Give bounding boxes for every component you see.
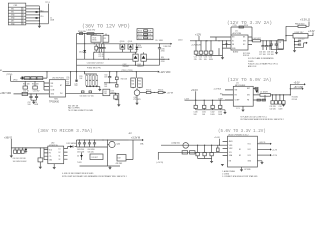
wire aux out [295,42,308,48]
junction dots rail 12V [195,40,227,41]
svg-text:431 REF: 431 REF [116,163,123,165]
low rail wire left [77,58,133,60]
resistor R121 [190,151,196,154]
capacitor C70 bulk [75,72,79,88]
svg-text:470U: 470U [161,61,166,63]
svg-text:10U: 10U [202,114,206,116]
fuse F100 [80,33,83,35]
capacitor C143 box [278,40,284,49]
svg-text:BT: BT [60,85,62,87]
top rail wire [77,33,104,35]
wire pin7 [26,23,49,25]
wire control row1 [11,72,50,87]
labels C115 R116 [233,25,249,27]
svg-text:BS: BS [243,37,245,39]
svg-text:D56: D56 [111,90,114,92]
DA DB inner labels [132,80,142,85]
wire pin2 [26,8,40,10]
svg-text:SW: SW [243,41,246,43]
capacitor C163 [83,140,86,147]
svg-text:R2 10K: R2 10K [292,99,298,101]
divider bottom rail [87,86,100,88]
svg-text:R18 10K: R18 10K [243,55,250,57]
capacitor C162 [78,140,81,147]
label +5V M arrow [163,91,173,94]
mosfet source wires upper [122,44,130,52]
labels C60 [104,74,108,88]
pgnd rail wire [77,64,160,66]
capacitor C133 [219,100,222,110]
svg-text:C32 22U: C32 22U [270,109,277,111]
svg-text:F100 3A: F100 3A [78,30,86,33]
resistor R51 [31,77,36,80]
svg-text:SDA: SDA [229,154,233,157]
label Q50 [134,97,141,101]
junction dots flyback in [15,147,45,148]
wire VCC riser [70,72,72,86]
labels C56 C57 below [80,96,95,98]
svg-text:(12V TO 5.0V 2A): (12V TO 5.0V 2A) [227,77,271,83]
svg-text:R64: R64 [132,80,135,82]
svg-text:+12V: +12V [195,32,201,36]
svg-text:COMP: COMP [218,99,223,101]
junction dots y52 [94,52,100,53]
svg-text:10K: 10K [104,86,108,88]
svg-text:1U: 1U [279,42,282,44]
wire +5.0V ldo drop [219,139,220,146]
svg-text:DET: DET [11,21,14,23]
capacitor C141b [270,41,273,50]
resistor R72 column [92,74,94,87]
svg-text:D2: D2 [59,152,61,154]
svg-text:(+5V D): (+5V D) [157,162,164,164]
buck IC U104 [222,86,260,106]
divider box pair DB [138,78,143,88]
ground rail collect [196,110,227,115]
U50 inner labels [51,83,64,96]
collect rail y52 [94,51,137,53]
svg-text:R76 1K: R76 1K [158,90,163,92]
mosfet Q103 [141,54,146,61]
svg-text:AND L102.: AND L102. [248,65,257,68]
svg-text:100N: 100N [50,20,55,22]
svg-text:4: GND OF SECONDARY SIDE IS SG: 4: GND OF SECONDARY SIDE IS SGND [62,172,94,175]
capacitor C132 [211,100,214,110]
labels C160 C161 D107 [13,158,28,163]
junction dots 36V wire [30,93,37,94]
capacitor C147 [274,95,277,104]
bus wire vertical [38,6,40,26]
svg-text:D76: D76 [138,45,141,47]
svg-text:+12V VFD: +12V VFD [159,71,170,74]
svg-text:+3.3V: +3.3V [308,30,315,33]
svg-text:C60 C61 C62 D30: C60 C61 C62 D30 [13,158,26,160]
svg-text:MP1584EN: MP1584EN [235,85,246,87]
zener ZD100 [80,153,83,161]
wire ldo input [161,144,228,146]
svg-text:R17 31K6: R17 31K6 [243,53,250,55]
capacitor C162b [21,148,24,154]
svg-text:C33: C33 [279,106,282,108]
svg-text:D1: D1 [59,148,61,150]
junction dots on bus [39,8,40,24]
wire output row [71,92,103,94]
ground ldo caps [198,159,214,164]
switcher U30 [44,146,68,164]
capacitor C1 label [50,18,55,22]
svg-text:D31 SB240: D31 SB240 [67,143,77,145]
ferrite bead FB102 [36,17,38,19]
svg-text:10U: 10U [28,104,32,106]
transformer T100 box [91,34,101,43]
junction dots low rail [93,59,109,60]
ground U103 [293,50,296,52]
svg-text:D106 24V: D106 24V [164,46,172,48]
wire after L51 [110,92,119,94]
label U102 [233,30,242,35]
svg-text:R61: R61 [104,84,107,86]
labels C52 C53 [28,102,39,106]
svg-text:VIN: VIN [235,90,239,92]
mosfet Q101 [128,44,133,49]
svg-text:U50 NCP1031: U50 NCP1031 [52,77,64,79]
junction dots top rail [84,33,103,34]
capacitor C135 [199,41,203,56]
svg-text:(+5V): (+5V) [185,98,190,100]
labels C139-C141 [259,52,274,56]
svg-text:IN: IN [232,41,234,43]
svg-text:L1 10UH: L1 10UH [260,91,268,93]
capacitor C75 [98,44,101,52]
pmic U1002 [223,136,258,167]
svg-text:R75 1K: R75 1K [146,90,151,92]
svg-text:C64 470U: C64 470U [88,149,96,151]
svg-text:U31 817: U31 817 [92,157,98,159]
note text 3.3V [248,57,278,68]
svg-text:U1002 LP3906SD 3.3/1.2: U1002 LP3906SD 3.3/1.2 [228,134,248,136]
mosfet Q102 [133,54,138,61]
svg-text:C65: C65 [138,84,141,86]
ferrite bead FB100 [286,22,309,28]
ldo U103 [286,33,313,39]
svg-text:C63 470U: C63 470U [77,149,85,151]
bootstrap loop C115 R116 [231,26,252,41]
labels C144 C145 [298,39,305,41]
capacitor C105 vertical [158,44,161,65]
ground L51 [117,93,120,106]
svg-text:COMP: COMP [235,100,240,102]
capacitor C102 drop [93,52,95,59]
labels ZD100 [77,156,82,164]
svg-text:VIPER12A: VIPER12A [49,144,58,147]
ferrite bead FB101 [36,11,38,13]
test point TP1 wire [47,4,49,24]
svg-text:L100 47U: L100 47U [87,30,96,32]
capacitor C164 [88,140,91,147]
wire pin5 [26,17,40,19]
svg-text:R110: R110 [138,31,142,33]
feedback tap wire [126,140,133,160]
wire DB to Q50 [136,88,138,90]
svg-text:FB: FB [247,100,249,102]
svg-text:1 2 3: 1 2 3 [236,108,240,110]
svg-text:2SK4017: 2SK4017 [123,66,130,68]
svg-text:(TP50): (TP50) [7,74,13,76]
mosfet drain source wires lower [136,52,144,65]
labels C146-C149 [270,106,284,110]
low rail wire right [146,58,159,60]
svg-text:R50 10K: R50 10K [23,84,30,86]
labels Q102 Q103 [123,64,144,68]
L51 inner labels [104,91,107,95]
svg-text:RC: RC [104,38,107,40]
bootstrap cap C119 [255,87,258,93]
wire secondary mid [107,140,109,166]
ground caps 3.3V [271,50,283,55]
svg-text:S2: S2 [59,159,61,161]
svg-text:B1: B1 [239,149,241,151]
rail flyback in [11,147,48,149]
capacitor C152 [210,145,213,158]
junction dot riser [285,35,295,45]
resistor R120 [182,151,188,154]
capacitor C141 [268,41,271,50]
svg-text:R70: R70 [80,76,83,78]
svg-text:D5: D5 [156,40,158,42]
wire pin6 [26,20,40,22]
junction dots divider [86,86,97,87]
svg-text:470U: 470U [161,50,166,52]
svg-text:VIN1: VIN1 [229,145,233,147]
U1002 output pin3 [257,154,277,157]
svg-text:C31 22U: C31 22U [270,106,277,108]
rail 12V wire [190,40,231,42]
svg-text:N: 3.3V PLANE IS SEPARATED: N: 3.3V PLANE IS SEPARATED [248,57,274,60]
labels right C55 [66,77,70,86]
svg-text:R51 10K: R51 10K [32,84,39,86]
resistor R50 [25,77,30,80]
svg-text:100N: 100N [279,109,284,111]
svg-text:CTL: CTL [49,156,52,158]
svg-text:SCL: SCL [229,152,232,154]
controller U50 [44,80,71,97]
wire +36V VFD [14,93,50,95]
svg-text:C105: C105 [161,48,165,50]
diode D104 vertical [135,44,138,52]
svg-text:C57 10U: C57 10U [88,96,95,98]
diode D110 [68,145,77,148]
resistor R71 column [89,74,91,87]
svg-text:C60: C60 [104,74,107,76]
resistor R76 [151,90,163,94]
transformer labels [93,37,97,41]
svg-text:C17 10U: C17 10U [259,54,266,56]
svg-text:C65 100N: C65 100N [77,151,85,153]
diode D106 [255,90,258,93]
svg-text:(TP51): (TP51) [121,70,127,72]
svg-text:+2.5V: +2.5V [272,155,278,157]
U104 pin labels [214,88,224,100]
resistor R70 column [86,74,88,87]
junction dots ldo input [197,145,212,146]
capacitor C53 [35,94,38,100]
resistor R52 [37,77,43,80]
svg-text:S1: S1 [59,155,61,157]
ground U104 pad [241,106,244,112]
svg-text:VDD: VDD [49,149,53,151]
feedback resistors [257,95,266,101]
feedback labels [292,96,298,100]
inductor L100 [87,33,94,35]
svg-text:PGND SW 5 PIN: PGND SW 5 PIN [87,68,101,70]
svg-text:GND: GND [49,159,53,161]
svg-text:R116: R116 [244,25,248,27]
svg-text:L51: L51 [104,91,107,93]
labels C105 C106 [161,48,166,63]
svg-text:(36V TO MICOM 3.75A): (36V TO MICOM 3.75A) [38,128,93,134]
labels R117 R118 [243,53,250,57]
svg-text:R1 40K2: R1 40K2 [292,96,298,98]
junction dots control rail [46,71,136,72]
capacitor C161 [17,148,20,154]
svg-text:+1.2V: +1.2V [272,149,278,151]
wire drop left [84,34,86,44]
label R70 [80,76,84,80]
fb box R63 [116,83,118,87]
wire pin4 [26,14,40,16]
capacitor C131 [203,100,206,110]
svg-text:EN: EN [235,95,238,97]
svg-text:JP50: JP50 [13,80,17,82]
svg-text:TH: 12 VIAS 0.3MM PITCH 1MM: TH: 12 VIAS 0.3MM PITCH 1MM [68,109,93,112]
ground U1002 pad [240,167,243,172]
gate resistor table [137,29,153,40]
fb branch hline [104,82,117,83]
capacitor C130 [194,100,197,110]
mosfet Q100 [120,44,125,49]
svg-text:C25 10U: C25 10U [298,39,305,41]
svg-text:AVIN: AVIN [229,140,233,143]
mid rail wire [77,43,160,45]
rail +12V VFD [3,71,160,73]
output stub D106 [160,43,173,45]
inrush box L50 [22,92,27,95]
left rail wire [76,34,78,72]
junction dots secondary [79,139,108,140]
junction dots 5V out [272,88,291,95]
capacitor C134 [194,41,198,56]
svg-text:FB: FB [51,86,53,88]
wire +36V drop [10,139,12,148]
svg-text:100N: 100N [210,114,215,116]
svg-text:1: 1 [23,9,24,11]
ground U30 [53,164,56,170]
output stub SW [160,59,170,60]
svg-text:U103 1117: U103 1117 [295,32,304,34]
capacitor C52 [29,94,32,100]
label U30 [49,143,58,147]
svg-text:Q101: Q101 [128,41,132,43]
ground divider [98,87,101,92]
ground secondary [108,166,111,170]
svg-text:L102 4R7: L102 4R7 [253,38,261,40]
capacitor C137 [209,41,213,56]
capacitor C103 drop [103,52,105,59]
svg-text:R55: R55 [66,82,69,84]
svg-text:3R3: 3R3 [104,93,107,95]
svg-text:R62 10K: R62 10K [121,79,128,81]
junction dots rail 5V [195,100,221,101]
svg-text:2SK4017: 2SK4017 [137,66,144,68]
svg-text:NOTE: KEEP SECONDARY GND SEPAR: NOTE: KEEP SECONDARY GND SEPARATED FROM … [62,175,127,178]
svg-text:4: 4 [23,18,24,20]
U1002 ground pin4 [257,161,263,165]
svg-text:SS34: SS34 [138,47,142,49]
svg-text:Q30: Q30 [117,144,121,146]
labels R50 R51 [23,84,39,86]
connector pin row labels [11,9,24,26]
rail 5V wire [185,99,234,101]
svg-text:C51 4N7: C51 4N7 [33,91,40,93]
svg-text:VO3: VO3 [248,155,251,157]
shunt reg U108 [117,155,126,162]
svg-text:+5V M: +5V M [167,93,174,95]
capacitor C160 [14,148,17,154]
capacitor C153 [217,145,220,151]
svg-text:+5.0V: +5.0V [294,83,301,85]
ground bus [38,26,41,28]
svg-text:100N: 100N [34,104,39,106]
transistor Q50 [134,90,140,96]
capacitor C146 [271,95,274,104]
capacitor C150 [196,145,199,158]
svg-text:100N: 100N [218,114,223,116]
svg-text:10U 100N 1N 600V: 10U 100N 1N 600V [13,161,28,163]
labels C134-C137 [194,57,214,61]
svg-text:C10: C10 [40,16,43,18]
svg-text:C19 10U: C19 10U [267,54,274,56]
wire +5.0V out [290,83,305,95]
svg-text:+12V BUS: +12V BUS [214,88,222,90]
svg-text:SW: SW [161,57,164,59]
svg-text:ZD: ZD [77,156,80,158]
svg-text:B2: B2 [239,155,241,157]
note text ldo [222,170,258,178]
junction dots mid rail [84,43,160,44]
svg-text:COM: COM [51,90,55,92]
U104 inner labels [235,88,251,102]
svg-text:C64: C64 [132,84,135,86]
svg-text:EN: EN [229,161,232,163]
rail secondary gnd [77,146,108,148]
labels C75 C76 [98,54,104,58]
svg-text:GND: GND [232,48,236,50]
svg-text:EP GND: EP GND [245,169,252,171]
svg-text:+36V VFD: +36V VFD [0,92,11,95]
svg-text:22U: 22U [194,59,198,61]
U102 inner labels [232,37,246,50]
inductor L51 box [103,89,110,96]
test point TP50 [7,74,13,81]
svg-text:R111: R111 [138,34,142,36]
svg-text:E1: E1 [0,70,2,72]
svg-text:22U: 22U [199,59,203,61]
resistor R75 [140,90,152,94]
svg-text:+3.3V_D: +3.3V_D [300,18,310,22]
U1002 inner labels [229,140,252,162]
U1002 output pin2 [257,148,277,151]
junction dots 3.3V wire [262,40,286,41]
